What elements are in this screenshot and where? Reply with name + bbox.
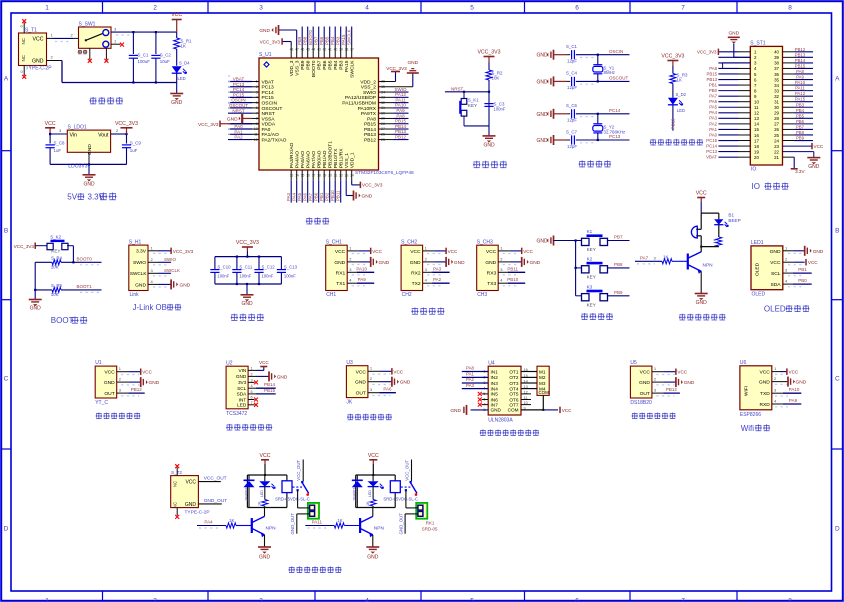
svg-text:28: 28 (774, 116, 779, 121)
svg-text:TCS3472: TCS3472 (226, 411, 247, 417)
svg-text:SWIO: SWIO (164, 257, 176, 262)
svg-text:PA4: PA4 (292, 192, 297, 201)
resistor R4 10K on BOOT0 (35, 256, 101, 270)
svg-text:TYPE-C-2P: TYPE-C-2P (185, 509, 210, 515)
svg-text:23: 23 (774, 144, 779, 149)
svg-text:LED: LED (178, 76, 186, 81)
svg-text:5: 5 (470, 598, 474, 602)
svg-text:VCC: VCC (260, 453, 271, 459)
svg-text:3.3V: 3.3V (136, 249, 147, 255)
svg-text:WIFI: WIFI (744, 386, 750, 396)
svg-text:TX2: TX2 (412, 281, 421, 287)
svg-text:GND: GND (355, 380, 366, 386)
svg-text:PA0: PA0 (262, 127, 271, 133)
svg-text:GND_OUT: GND_OUT (204, 498, 228, 504)
svg-text:PC13: PC13 (706, 149, 717, 154)
svg-text:PA3: PA3 (433, 266, 442, 271)
caption J-Link OB接口 (133, 303, 182, 312)
svg-text:VCC: VCC (45, 121, 56, 127)
svg-text:PB8: PB8 (303, 36, 308, 45)
svg-text:KEY: KEY (587, 302, 596, 307)
svg-text:PB10/TX: PB10/TX (333, 148, 339, 168)
power symbol VCC_3V3 at LDO (115, 121, 138, 134)
capacitor C8 1uF (46, 134, 66, 164)
svg-text:PC15: PC15 (706, 138, 717, 143)
svg-text:10: 10 (754, 100, 759, 105)
svg-text:VCC: VCC (562, 408, 572, 413)
svg-text:VSS_3: VSS_3 (295, 60, 301, 76)
svg-text:IN2: IN2 (491, 375, 499, 380)
H1 pin wires (148, 245, 171, 287)
svg-text:VCC: VCC (104, 370, 115, 376)
svg-text:PB5: PB5 (325, 36, 330, 45)
svg-text:PA0: PA0 (709, 132, 717, 137)
caption 复位电路 (473, 161, 507, 168)
svg-text:1K: 1K (663, 254, 668, 259)
svg-text:NC: NC (21, 37, 26, 44)
caption 主芯片 (306, 218, 329, 225)
svg-text:S_C13: S_C13 (284, 265, 298, 270)
caption 温度检测模块 (631, 413, 675, 419)
svg-text:KEY: KEY (51, 249, 60, 254)
svg-text:3: 3 (259, 598, 263, 602)
svg-text:BEEP: BEEP (728, 218, 740, 223)
svg-text:A: A (835, 75, 840, 82)
svg-text:SCL: SCL (237, 386, 247, 391)
ground at H1 pin4 (171, 279, 191, 289)
svg-text:VCC: VCC (393, 369, 403, 374)
svg-text:PB5: PB5 (796, 113, 805, 118)
svg-text:VSSA: VSSA (262, 116, 276, 122)
svg-text:100nF: 100nF (494, 107, 506, 112)
svg-text:VCC: VCC (448, 249, 458, 254)
svg-text:OSCIN: OSCIN (262, 101, 278, 107)
svg-text:PA1: PA1 (466, 372, 475, 377)
capacitor C12 100nF (254, 257, 275, 284)
svg-text:PC13: PC13 (609, 134, 621, 139)
svg-text:10uF: 10uF (160, 59, 170, 64)
serial port CH1 (326, 239, 390, 297)
svg-text:LED: LED (677, 108, 685, 113)
junction dots power rail (132, 31, 157, 84)
svg-text:COM: COM (508, 408, 519, 413)
svg-text:GND: GND (485, 260, 496, 266)
svg-text:S_D4: S_D4 (179, 60, 190, 65)
svg-text:GND: GND (241, 301, 253, 307)
reset bottom wires and ground (464, 126, 496, 149)
svg-text:VCC: VCC (486, 249, 497, 255)
svg-text:PB0: PB0 (314, 192, 319, 201)
svg-text:DS18B20: DS18B20 (630, 400, 652, 406)
svg-text:BOOT: BOOT (51, 316, 74, 325)
svg-text:PB14: PB14 (264, 382, 276, 387)
svg-text:2: 2 (251, 372, 253, 376)
svg-text:GND: GND (530, 260, 541, 266)
relay circuit 2 (305, 453, 438, 561)
svg-text:OLED: OLED (755, 262, 761, 276)
svg-text:3V3: 3V3 (238, 380, 247, 385)
capacitor C2 10uF (151, 32, 171, 82)
svg-text:SDA: SDA (237, 392, 248, 397)
svg-text:KEY: KEY (468, 103, 477, 108)
svg-text:PA10: PA10 (395, 103, 406, 108)
svg-text:PA5: PA5 (709, 105, 717, 110)
svg-text:32: 32 (774, 94, 779, 99)
U6 TXD wire PA10 (772, 387, 802, 393)
svg-text:GND: GND (104, 380, 115, 386)
svg-text:OT4: OT4 (509, 386, 519, 391)
svg-text:12pF: 12pF (567, 144, 577, 149)
svg-text:GND: GND (259, 555, 271, 561)
svg-text:Wifi: Wifi (741, 424, 755, 433)
caption IO拓展口 (752, 182, 789, 191)
U2 GND wire (248, 371, 288, 381)
svg-text:D: D (835, 525, 840, 532)
svg-text:VCC: VCC (677, 370, 687, 375)
svg-text:GND: GND (483, 143, 495, 149)
svg-text:PA7: PA7 (640, 256, 649, 261)
key button K2 (576, 256, 630, 279)
U2 SCL wire PB14 (248, 382, 276, 388)
svg-text:PB2: PB2 (325, 192, 330, 201)
svg-text:PB11: PB11 (336, 190, 341, 201)
svg-text:VDD_2: VDD_2 (360, 79, 376, 85)
svg-text:1: 1 (45, 598, 49, 602)
svg-text:OT3: OT3 (509, 381, 519, 386)
svg-text:S_C11: S_C11 (239, 265, 252, 270)
svg-text:SWCLK: SWCLK (347, 29, 352, 45)
svg-text:COM: COM (539, 390, 550, 395)
svg-text:PB12: PB12 (795, 47, 806, 52)
svg-text:PB10: PB10 (330, 190, 335, 201)
caption 红外计数模块 (347, 414, 392, 420)
svg-text:S_C2: S_C2 (160, 53, 172, 58)
svg-text:VCC_3V3: VCC_3V3 (362, 183, 383, 188)
svg-text:PA15: PA15 (344, 60, 350, 72)
svg-text:U3: U3 (346, 360, 353, 366)
svg-text:1uF: 1uF (130, 148, 138, 153)
svg-text:7: 7 (681, 598, 685, 602)
svg-text:VCC_OUT: VCC_OUT (296, 460, 301, 481)
resistor R2 10K (486, 70, 503, 126)
U2 VIN to VCC (248, 360, 269, 370)
T2 VCC_OUT wire (198, 476, 226, 482)
svg-text:S_D2: S_D2 (676, 92, 687, 97)
svg-text:PA4/AO: PA4/AO (295, 151, 301, 169)
svg-text:GND: GND (277, 374, 288, 380)
svg-text:S_R4: S_R4 (51, 256, 63, 261)
svg-text:PC13: PC13 (233, 82, 245, 87)
svg-text:S_U1: S_U1 (259, 52, 272, 58)
svg-text:PB6: PB6 (796, 119, 805, 124)
no-connect X SW1 bottom pins (88, 59, 109, 63)
svg-text:PB15: PB15 (264, 388, 276, 393)
svg-text:VCC: VCC (410, 249, 421, 255)
svg-text:S_CH1: S_CH1 (326, 239, 342, 245)
svg-text:B: B (4, 227, 8, 234)
crystal Y1 8MHz (593, 54, 615, 83)
caption OLED显示屏 (764, 305, 810, 314)
svg-text:RK1: RK1 (426, 521, 435, 526)
svg-text:PB13: PB13 (364, 132, 376, 138)
svg-text:OSCIN: OSCIN (609, 49, 623, 54)
ST1 right wires and labels (783, 47, 814, 141)
caption 液体触发模块 (96, 413, 141, 419)
LDO bottom rail and ground (50, 163, 126, 187)
svg-text:RX3: RX3 (487, 270, 497, 276)
caption 颜色检测模块 (226, 424, 272, 430)
svg-text:IN1: IN1 (491, 369, 499, 374)
alarm bottom rail (700, 246, 719, 248)
svg-text:24: 24 (774, 138, 779, 143)
svg-text:PC14: PC14 (706, 143, 717, 148)
svg-text:IO: IO (752, 182, 760, 191)
svg-text:GND: GND (185, 502, 197, 508)
svg-text:PB7: PB7 (614, 235, 623, 240)
COM wire to VCC (521, 395, 572, 413)
svg-text:S_R5: S_R5 (51, 283, 63, 288)
svg-text:22: 22 (774, 149, 779, 154)
svg-text:GND_OUT: GND_OUT (398, 513, 403, 535)
U6 RXD wire PA9 (772, 398, 802, 404)
svg-text:PB4: PB4 (796, 108, 805, 113)
svg-text:PA6/AO: PA6/AO (306, 151, 312, 169)
svg-text:VBAT: VBAT (233, 77, 245, 82)
svg-text:PC14: PC14 (609, 108, 621, 113)
svg-text:33: 33 (774, 88, 779, 93)
U2 no-connect pin6 (248, 398, 258, 402)
svg-text:SRD-05VDC-SL-C: SRD-05VDC-SL-C (383, 496, 418, 501)
svg-text:K1: K1 (587, 229, 593, 234)
svg-text:SWIO: SWIO (133, 260, 146, 266)
svg-text:PB15: PB15 (395, 119, 407, 124)
svg-text:VCC: VCC (372, 249, 382, 254)
svg-text:GND: GND (536, 112, 548, 118)
svg-text:VCC: VCC (770, 260, 781, 266)
svg-text:PA1: PA1 (709, 127, 717, 132)
svg-text:4: 4 (365, 5, 369, 12)
svg-text:32.768KHz: 32.768KHz (604, 130, 626, 135)
ST1 pin3 bend wire (723, 63, 751, 68)
no-connect X SW1 pin1 (120, 43, 124, 47)
svg-text:OT5: OT5 (509, 392, 519, 397)
svg-text:GND: GND (379, 260, 390, 266)
svg-text:YT_C: YT_C (95, 400, 108, 406)
svg-text:PA7: PA7 (709, 94, 717, 99)
svg-text:Vin: Vin (70, 132, 78, 138)
svg-text:S_SW1: S_SW1 (79, 22, 96, 28)
svg-text:PA9: PA9 (358, 277, 367, 282)
svg-text:GND: GND (367, 555, 379, 561)
svg-text:PA8: PA8 (367, 116, 376, 122)
svg-text:GND: GND (536, 53, 548, 59)
svg-text:PA5: PA5 (297, 192, 302, 201)
power VCC_3V3 at H1 pin1 (171, 248, 194, 254)
svg-text:U5: U5 (630, 360, 637, 366)
svg-text:GND: GND (728, 31, 739, 37)
svg-text:VCC: VCC (259, 360, 269, 365)
U2 no-connect pin7 (248, 403, 258, 407)
svg-text:PB8: PB8 (614, 262, 623, 267)
serial port CH3 (477, 239, 541, 297)
driver U4 ULN2803A (483, 360, 527, 423)
svg-text:PA6: PA6 (383, 387, 392, 392)
svg-text:GND: GND (536, 239, 548, 245)
svg-text:PA12/USB/DP: PA12/USB/DP (345, 95, 376, 101)
svg-text:PB2/BOOT1: PB2/BOOT1 (328, 141, 334, 168)
caption Wifi模块 (741, 424, 770, 433)
ground GND power circuit (170, 94, 183, 107)
wire U1 VSS_3 to GND (259, 25, 296, 46)
connector H1 J-Link (129, 239, 148, 298)
svg-text:PA3: PA3 (709, 116, 717, 121)
svg-text:S_T1: S_T1 (25, 28, 37, 34)
svg-text:BOOT1: BOOT1 (77, 284, 93, 289)
svg-text:OUT: OUT (356, 391, 366, 397)
svg-text:C: C (4, 375, 9, 382)
svg-text:PB1: PB1 (709, 82, 718, 87)
svg-text:PA6: PA6 (303, 192, 308, 201)
svg-text:PC13: PC13 (671, 118, 676, 130)
svg-text:U6: U6 (740, 360, 747, 366)
svg-text:VCC_3V3: VCC_3V3 (14, 244, 35, 249)
svg-text:14: 14 (754, 122, 759, 127)
svg-text:VCC: VCC (142, 370, 152, 375)
caption 四相五线步进电机 (480, 430, 539, 436)
svg-text:PA1/AO: PA1/AO (262, 132, 280, 138)
svg-text:M3: M3 (539, 381, 546, 386)
svg-text:S_C8: S_C8 (54, 141, 66, 146)
svg-text:VCC_3V3: VCC_3V3 (386, 66, 407, 71)
svg-text:PA10RX: PA10RX (358, 106, 377, 112)
power VCC_3V3 filter (236, 240, 259, 257)
svg-text:GND: GND (410, 260, 421, 266)
svg-text:LED: LED (237, 403, 247, 408)
svg-text:OT7: OT7 (509, 402, 519, 407)
svg-text:OLED: OLED (752, 292, 766, 298)
svg-text:S_C6: S_C6 (566, 103, 578, 108)
svg-text:21: 21 (774, 155, 779, 160)
svg-text:LED: LED (260, 490, 264, 497)
svg-text:PB6: PB6 (319, 36, 324, 45)
svg-text:GND: GND (813, 249, 824, 255)
filter rails (215, 256, 282, 286)
svg-text:S_CH2: S_CH2 (401, 239, 417, 245)
svg-text:PB6: PB6 (322, 60, 328, 70)
svg-text:PA11: PA11 (795, 86, 805, 91)
svg-text:PA11: PA11 (395, 97, 406, 102)
svg-text:NC: NC (173, 481, 178, 487)
svg-text:VCC_3V3: VCC_3V3 (115, 121, 138, 127)
svg-text:CH3: CH3 (477, 292, 487, 298)
svg-text:5: 5 (251, 390, 253, 394)
svg-text:PB9: PB9 (796, 136, 805, 141)
svg-text:PB3: PB3 (796, 102, 805, 107)
MCU U1 STM32F103C8T6_LQFP48 (254, 48, 414, 178)
svg-text:39: 39 (774, 55, 779, 60)
svg-text:12: 12 (754, 111, 759, 116)
power VCC at OLED pin2 (806, 259, 818, 265)
power port VCC_3V3 to U1 VDDA (198, 121, 259, 127)
svg-text:TYPE-C-2P: TYPE-C-2P (26, 66, 53, 72)
svg-text:PB11: PB11 (507, 266, 518, 271)
svg-text:VCC: VCC (356, 369, 367, 375)
svg-text:37: 37 (774, 66, 779, 71)
svg-text:SRD-05VDC-SL-C: SRD-05VDC-SL-C (275, 496, 310, 501)
capacitor C13 100nF (277, 257, 298, 284)
svg-text:S_H1: S_H1 (129, 239, 142, 245)
svg-text:10K: 10K (51, 292, 59, 297)
svg-text:NPN: NPN (374, 526, 385, 532)
svg-text:7: 7 (251, 401, 253, 405)
wire VCC to LDO Vin (49, 128, 67, 135)
svg-text:GND: GND (334, 260, 345, 266)
connector ST1 IO header (750, 41, 782, 173)
svg-text:19: 19 (754, 149, 759, 154)
svg-text:VCC: VCC (640, 370, 651, 376)
svg-text:Vout: Vout (98, 132, 109, 138)
svg-text:5: 5 (470, 5, 474, 12)
wire U1 VSS_2 to GND (379, 60, 419, 87)
svg-text:PB13: PB13 (395, 129, 407, 134)
alarm top rail (701, 213, 719, 229)
svg-text:PA8: PA8 (709, 66, 717, 71)
svg-text:PC14: PC14 (233, 87, 245, 92)
svg-text:VCC: VCC (368, 453, 379, 459)
svg-text:17: 17 (754, 138, 759, 143)
boot left rail and ground (29, 262, 42, 311)
svg-text:PA2: PA2 (234, 135, 243, 140)
svg-text:S_C10: S_C10 (217, 265, 231, 270)
svg-text:PB15: PB15 (706, 71, 717, 76)
svg-text:PA7: PA7 (308, 192, 313, 201)
svg-text:PA8: PA8 (396, 113, 405, 118)
svg-text:NRST: NRST (262, 111, 275, 117)
svg-text:KEY: KEY (587, 274, 596, 279)
svg-text:U2: U2 (226, 360, 233, 366)
base resistor 1K alarm (635, 254, 688, 264)
svg-text:B: B (835, 227, 839, 234)
svg-text:2: 2 (153, 598, 157, 602)
svg-text:M2: M2 (539, 375, 546, 380)
power VCC at ST1 pin23 (783, 143, 824, 149)
svg-text:NRST: NRST (232, 108, 245, 113)
U4 input wires IN1-IN4 (462, 366, 488, 389)
svg-text:VDD_3: VDD_3 (289, 60, 295, 76)
svg-text:VCC: VCC (185, 480, 196, 486)
svg-text:PB11/RX: PB11/RX (339, 148, 345, 168)
svg-text:1K: 1K (677, 78, 682, 83)
svg-text:PB14: PB14 (364, 127, 376, 133)
svg-text:13: 13 (754, 116, 759, 121)
capacitor C3 100nF (484, 102, 505, 112)
svg-text:3.3V: 3.3V (795, 169, 805, 174)
3.3V at ST1 pin21 (783, 157, 806, 174)
svg-text:PB7: PB7 (314, 36, 319, 45)
svg-text:PB1/AO: PB1/AO (322, 150, 328, 168)
svg-text:K3: K3 (587, 284, 593, 289)
svg-text:PB12: PB12 (364, 137, 376, 143)
caption 串口电路 (411, 307, 444, 314)
svg-text:12pF: 12pF (567, 85, 577, 90)
svg-text:JK: JK (346, 400, 353, 406)
svg-text:CH1: CH1 (326, 292, 336, 298)
svg-text:PA2: PA2 (433, 277, 442, 282)
svg-text:PB0: PB0 (709, 88, 718, 93)
no-connect X T2 pins (175, 464, 179, 519)
U4 no-connect IN7 (478, 403, 488, 407)
bottom pin wires and net labels of U1 (286, 170, 352, 203)
